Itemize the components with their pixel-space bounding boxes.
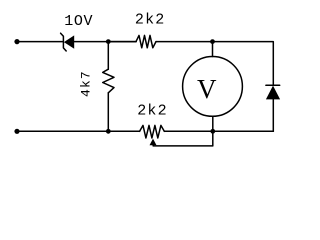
junction node B (meter top): [210, 39, 215, 44]
wire voltmeter bottom to node C: [212, 116, 214, 131]
junction node A: [106, 39, 111, 44]
terminal top-left: [14, 39, 19, 44]
diode D2 triangle: [266, 86, 280, 100]
svg-text:1OV: 1OV: [64, 13, 93, 30]
wire bottom (terminal to potentiometer): [17, 130, 140, 132]
svg-text:V: V: [197, 74, 217, 104]
voltmeter U1 circle: [183, 57, 243, 117]
junction 4k7 bottom: [106, 129, 111, 134]
wire zener to node A: [74, 41, 136, 43]
svg-text:2k2: 2k2: [137, 103, 168, 120]
resistor 2k2 (top): [136, 35, 156, 47]
svg-text:2k2: 2k2: [135, 12, 166, 29]
wire node A down to resistor 4k7: [107, 42, 109, 70]
wire resistor 4k7 to bottom node: [107, 93, 109, 132]
wire node A to voltmeter top: [212, 42, 214, 57]
zener diode cathode bar: [61, 33, 67, 51]
diode D2 cathode bar: [266, 84, 280, 86]
zener diode D1 triangle: [64, 35, 74, 48]
resistor 4k7 (vertical): [103, 69, 114, 93]
wire right side below diode: [272, 99, 274, 131]
potentiometer 2k2 (bottom): [140, 125, 165, 138]
potentiometer wiper arrow: [150, 139, 157, 146]
svg-text:4k7: 4k7: [79, 70, 94, 97]
wire resistor to node B and top-right corner: [156, 42, 273, 86]
wire potentiometer to bottom-right corner: [164, 130, 273, 132]
terminal bottom-left: [14, 129, 19, 134]
junction node C (meter bottom): [210, 129, 215, 134]
wire top-left (terminal to zener): [17, 41, 63, 43]
wire node A to resistor 2k2 top: [108, 41, 136, 43]
potentiometer wiper wire: [153, 131, 213, 146]
